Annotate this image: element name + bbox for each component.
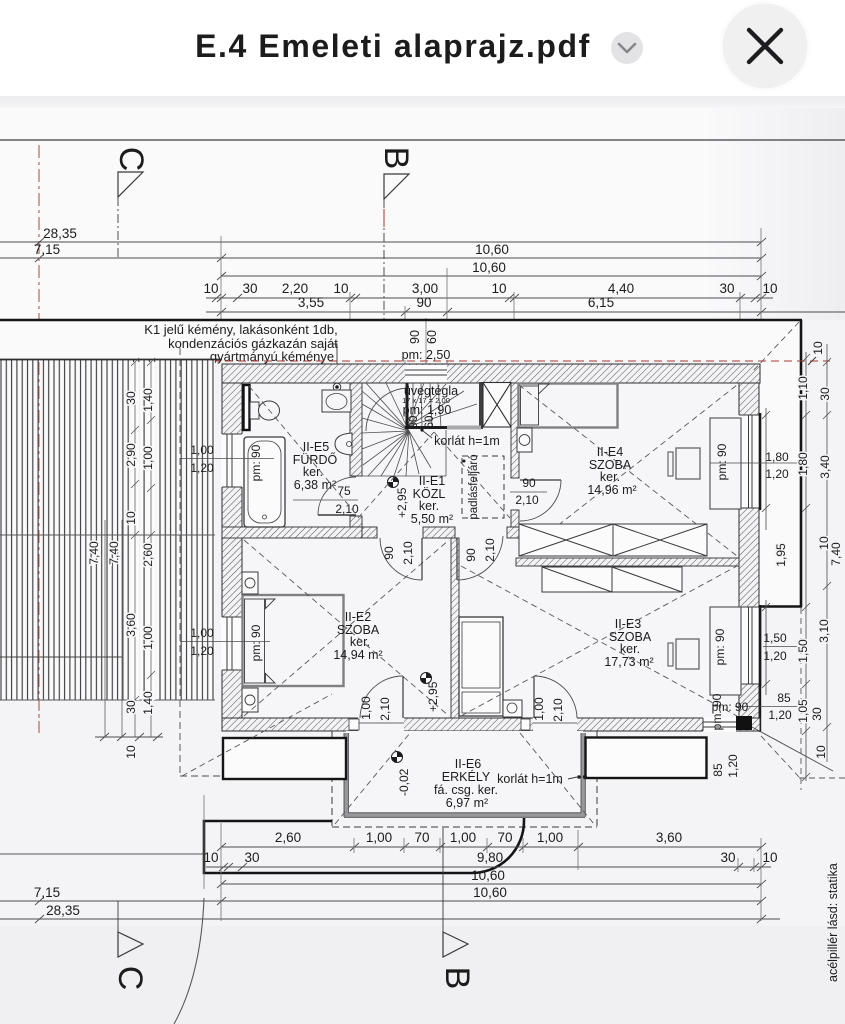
terrace bottom tick line bbox=[95, 733, 163, 741]
light strip inside envelope top bbox=[0, 321, 800, 360]
svg-text:10: 10 bbox=[333, 281, 348, 296]
right vertical dim line 1 bbox=[762, 408, 770, 695]
svg-text:-0,02: -0,02 bbox=[397, 768, 411, 796]
svg-text:pm: 90: pm: 90 bbox=[249, 624, 263, 661]
svg-text:acélpillér lásd: statika: acélpillér lásd: statika bbox=[826, 863, 840, 982]
rooms background bbox=[242, 383, 739, 718]
svg-text:pm: 90: pm: 90 bbox=[715, 443, 729, 480]
svg-text:10,60: 10,60 bbox=[473, 885, 507, 900]
svg-text:2,10: 2,10 bbox=[551, 698, 565, 722]
svg-text:3,60: 3,60 bbox=[656, 830, 682, 845]
stair treads fan bbox=[362, 383, 477, 476]
svg-text:1,50: 1,50 bbox=[763, 631, 787, 645]
svg-text:10: 10 bbox=[491, 281, 506, 296]
stair inner curve bbox=[366, 388, 409, 431]
right wall window (room E4) bbox=[738, 413, 760, 510]
svg-text:30: 30 bbox=[242, 281, 257, 296]
chevron button bbox=[611, 32, 643, 64]
E3 entry door bbox=[456, 538, 458, 580]
top dimension line 10,60 (2) bbox=[217, 272, 766, 280]
ground floor curved wall (bottom left) bbox=[174, 898, 204, 1024]
washbasin (top wall) bbox=[322, 390, 351, 412]
svg-text:1,40: 1,40 bbox=[141, 691, 155, 715]
svg-text:3,60: 3,60 bbox=[124, 613, 138, 637]
svg-text:90: 90 bbox=[408, 416, 420, 429]
svg-text:75: 75 bbox=[337, 484, 351, 498]
svg-text:10: 10 bbox=[811, 341, 825, 355]
right wall bbox=[739, 383, 759, 731]
svg-text:pm. 90: pm. 90 bbox=[710, 693, 724, 730]
svg-text:85: 85 bbox=[777, 691, 791, 705]
building envelope bold top bbox=[0, 319, 802, 322]
bottom wall window (E3) bbox=[703, 717, 736, 732]
WC bbox=[250, 402, 259, 419]
balcony dashed outline bbox=[332, 731, 597, 827]
svg-text:4,40: 4,40 bbox=[608, 281, 634, 296]
bottom chain dimension line bbox=[217, 843, 766, 851]
E4 south wall bbox=[516, 558, 739, 566]
svg-text:II-E1: II-E1 bbox=[419, 474, 445, 488]
E3 sideboard triangles bbox=[542, 567, 682, 592]
svg-text:B: B bbox=[438, 967, 476, 990]
svg-text:30: 30 bbox=[719, 281, 734, 296]
svg-text:1,00: 1,00 bbox=[190, 443, 214, 457]
axis C bottom: pole bbox=[117, 901, 119, 932]
envelope jog west bbox=[760, 605, 802, 607]
bathtub bbox=[244, 437, 285, 527]
svg-text:+2,95: +2,95 bbox=[426, 681, 440, 712]
E3 balcony door bbox=[533, 676, 535, 718]
E2 nightstands bbox=[242, 572, 258, 594]
header bar bbox=[0, 0, 845, 96]
svg-text:gyártmányú kéménye: gyártmányú kéménye bbox=[210, 349, 334, 364]
E2 balcony door bbox=[402, 676, 404, 718]
svg-text:10: 10 bbox=[762, 850, 777, 865]
E2 roof dashed diagonals bbox=[244, 540, 449, 716]
svg-text:korlát h=1m: korlát h=1m bbox=[434, 434, 500, 448]
svg-text:3,40: 3,40 bbox=[818, 455, 832, 479]
svg-text:1,00: 1,00 bbox=[532, 697, 546, 721]
svg-text:70: 70 bbox=[497, 830, 512, 845]
bath dashed roof line bbox=[249, 386, 356, 514]
bath south wall bbox=[222, 527, 362, 538]
svg-text:1,20: 1,20 bbox=[190, 644, 214, 658]
svg-text:28,35: 28,35 bbox=[43, 226, 77, 241]
svg-text:6,15: 6,15 bbox=[588, 295, 614, 310]
svg-text:1,00: 1,00 bbox=[450, 830, 476, 845]
svg-text:90: 90 bbox=[382, 546, 396, 560]
svg-text:7,40: 7,40 bbox=[87, 541, 101, 565]
svg-text:1,20: 1,20 bbox=[765, 467, 789, 481]
axis B bottom: flag bbox=[443, 932, 468, 957]
balcony bench west (bold rect) bbox=[223, 738, 346, 779]
svg-text:14,94 m²: 14,94 m² bbox=[333, 648, 382, 662]
hand basin (right wall of bath) bbox=[335, 433, 352, 455]
top dimension line 3,55 / 90 / 6,15 bbox=[206, 308, 845, 316]
room E2 bed bbox=[243, 595, 344, 686]
svg-text:C: C bbox=[111, 966, 149, 991]
svg-text:1,20: 1,20 bbox=[726, 754, 740, 778]
bath door bbox=[318, 514, 356, 516]
axis C top: pole bbox=[117, 197, 119, 259]
svg-text:70: 70 bbox=[414, 830, 429, 845]
axis B bottom: pole bbox=[442, 828, 444, 932]
lower dashed terrace lines bbox=[180, 775, 221, 777]
svg-text:fá. csg. ker.: fá. csg. ker. bbox=[434, 783, 498, 797]
bottom wall opening: balcony door E3 bbox=[533, 717, 577, 733]
svg-text:6,38 m²: 6,38 m² bbox=[294, 478, 336, 492]
E4 desk bbox=[710, 418, 741, 509]
left wall window (room E2) bbox=[221, 617, 243, 670]
svg-text:6,97 m²: 6,97 m² bbox=[446, 796, 488, 810]
svg-text:+2,95: +2,95 bbox=[395, 487, 409, 518]
bath radiator (dark bar) bbox=[244, 385, 250, 430]
roof corner dashed (top right) bbox=[752, 322, 799, 372]
terrace horizontal division line bbox=[0, 534, 215, 536]
K1 chimney marker dot bbox=[333, 383, 341, 391]
red axis A (dash-dot vertical) bbox=[38, 145, 40, 733]
svg-text:1,50: 1,50 bbox=[796, 639, 810, 663]
svg-text:7,15: 7,15 bbox=[34, 242, 60, 257]
bottom 28,35 line bbox=[0, 915, 780, 923]
svg-text:1,20: 1,20 bbox=[763, 649, 787, 663]
E4 west wall upper bbox=[511, 383, 519, 478]
svg-text:ker.: ker. bbox=[600, 470, 620, 484]
bottom 7,15 / 10,60 line bbox=[0, 897, 766, 905]
svg-text:II-E3: II-E3 bbox=[615, 617, 641, 631]
svg-text:C: C bbox=[112, 147, 150, 172]
bottom extension lines bbox=[204, 795, 761, 921]
right rotated dims bbox=[711, 341, 843, 778]
bottom 10,60 line 1 bbox=[217, 880, 766, 888]
svg-text:2,60: 2,60 bbox=[275, 830, 301, 845]
level marker -0,02 (balcony) bbox=[392, 752, 412, 797]
red dashed roof line bbox=[30, 360, 830, 362]
right vertical dim line 2 bbox=[802, 352, 810, 781]
svg-text:10: 10 bbox=[814, 745, 828, 759]
level marker +2,95 (stair) bbox=[388, 477, 410, 519]
bench corner dot bbox=[583, 775, 587, 779]
svg-text:ERKÉLY: ERKÉLY bbox=[442, 769, 491, 784]
svg-text:10: 10 bbox=[124, 511, 138, 525]
svg-text:10: 10 bbox=[203, 281, 218, 296]
korlát note bbox=[423, 431, 432, 438]
svg-text:1,80: 1,80 bbox=[796, 452, 810, 476]
top dimension line 7,15 / 10,60 bbox=[0, 254, 766, 262]
E4 entry door bbox=[520, 479, 561, 481]
balcony railing bbox=[344, 733, 585, 815]
extension lines above building bbox=[221, 228, 761, 364]
svg-text:1,05: 1,05 bbox=[796, 699, 810, 723]
svg-text:30: 30 bbox=[720, 850, 735, 865]
E2 entry door bbox=[421, 538, 423, 580]
corridor south wall segment 3 bbox=[507, 527, 519, 538]
steel pillar (acélpillér) bbox=[736, 716, 752, 730]
svg-text:pm: 1,90: pm: 1,90 bbox=[403, 403, 452, 417]
E4 chair bbox=[676, 448, 700, 479]
svg-text:60: 60 bbox=[425, 330, 439, 344]
balcony dashed diagonal bbox=[335, 733, 410, 824]
right wall window (room E3) bbox=[738, 605, 760, 686]
red axis overlay in hatch bbox=[38, 362, 40, 733]
close button bbox=[721, 2, 809, 90]
top frame line bbox=[0, 139, 845, 141]
svg-text:1,00: 1,00 bbox=[141, 626, 155, 650]
axis C top: flag bbox=[118, 172, 143, 197]
svg-text:1,10: 1,10 bbox=[796, 376, 810, 400]
svg-text:30: 30 bbox=[124, 700, 138, 714]
svg-text:II-E2: II-E2 bbox=[345, 610, 371, 624]
svg-text:10,60: 10,60 bbox=[472, 260, 506, 275]
E4 roof dashed diagonals bbox=[519, 385, 737, 556]
E4 west wall lower bbox=[511, 510, 519, 527]
svg-text:3,10: 3,10 bbox=[817, 619, 831, 643]
bottom wall opening: balcony door E2 bbox=[358, 717, 404, 733]
svg-text:2,90: 2,90 bbox=[124, 443, 138, 467]
svg-text:3,00: 3,00 bbox=[412, 281, 438, 296]
top dimension line 28,35 bbox=[0, 238, 766, 246]
level marker +2,95 (E3) bbox=[421, 673, 441, 713]
svg-text:90: 90 bbox=[464, 548, 478, 562]
stair railing bbox=[406, 383, 409, 429]
svg-text:90: 90 bbox=[416, 295, 431, 310]
svg-text:85: 85 bbox=[711, 763, 725, 777]
svg-text:90: 90 bbox=[408, 330, 422, 344]
svg-text:10: 10 bbox=[762, 281, 777, 296]
upper white band of sheet bbox=[0, 96, 845, 108]
terrace rotated dims bbox=[87, 388, 155, 759]
svg-text:14,96 m²: 14,96 m² bbox=[587, 483, 636, 497]
svg-text:7,40: 7,40 bbox=[829, 542, 843, 566]
svg-text:1,95: 1,95 bbox=[774, 543, 788, 567]
svg-text:1,00: 1,00 bbox=[141, 446, 155, 470]
E4 wardrobe row with X bbox=[519, 524, 707, 556]
left wall bbox=[222, 383, 242, 731]
svg-text:2,10: 2,10 bbox=[515, 493, 539, 507]
terrace hatched area bbox=[0, 360, 215, 700]
balcony bench east (bold rect) bbox=[586, 738, 707, 779]
left wall window (bath) bbox=[221, 434, 243, 487]
bottom 9,80 dimension line bbox=[206, 863, 771, 871]
svg-text:30: 30 bbox=[818, 387, 832, 401]
svg-text:1,00: 1,00 bbox=[537, 830, 563, 845]
roof corner dashed (bottom right) bbox=[761, 736, 799, 777]
svg-text:1,20: 1,20 bbox=[768, 708, 792, 722]
svg-text:II-E6: II-E6 bbox=[455, 757, 481, 771]
right vertical dim line 3 bbox=[823, 344, 831, 762]
glass block (üvegtégla) segment in top wall bbox=[405, 365, 447, 383]
svg-text:30: 30 bbox=[124, 391, 138, 405]
E4 entry door dims bbox=[510, 491, 547, 493]
svg-text:1,40: 1,40 bbox=[141, 388, 155, 412]
axis B top: red segment bbox=[383, 209, 385, 227]
svg-text:1,00: 1,00 bbox=[190, 626, 214, 640]
bath/stair wall bbox=[350, 383, 362, 476]
svg-text:90: 90 bbox=[522, 476, 536, 490]
svg-text:30: 30 bbox=[810, 707, 824, 721]
bath door dims bbox=[293, 499, 358, 501]
corridor south wall segment 1 bbox=[362, 527, 377, 538]
E3 desk bbox=[710, 607, 741, 695]
E3 chair bbox=[676, 639, 699, 669]
svg-text:pm: 90: pm: 90 bbox=[249, 444, 263, 481]
balcony floor bbox=[346, 731, 583, 817]
vertical dashed reference line bbox=[179, 348, 181, 776]
svg-text:II-E5: II-E5 bbox=[303, 440, 329, 454]
svg-text:1,80: 1,80 bbox=[765, 450, 789, 464]
svg-text:60: 60 bbox=[424, 416, 436, 429]
svg-text:2,60: 2,60 bbox=[141, 543, 155, 567]
svg-text:7,15: 7,15 bbox=[34, 885, 60, 900]
svg-text:5,50 m²: 5,50 m² bbox=[411, 512, 453, 526]
E4 nightstand bbox=[517, 428, 532, 452]
svg-text:28,35: 28,35 bbox=[46, 903, 80, 918]
svg-text:3,55: 3,55 bbox=[298, 295, 324, 310]
axis B top: flag bbox=[384, 174, 409, 199]
svg-text:B: B bbox=[377, 147, 415, 170]
room E4 bed bbox=[519, 384, 618, 428]
svg-text:2,10: 2,10 bbox=[378, 697, 392, 721]
door threshold boxes bbox=[349, 719, 359, 730]
svg-text:ker.: ker. bbox=[303, 465, 323, 479]
svg-text:9,80: 9,80 bbox=[477, 850, 503, 865]
bottom wall bbox=[222, 718, 760, 731]
svg-text:2,10: 2,10 bbox=[483, 538, 497, 562]
light strip inside envelope right bbox=[759, 321, 800, 607]
E2/E3 partition wall bbox=[451, 538, 459, 718]
E3 roof dashed diagonals bbox=[461, 566, 737, 716]
svg-text:1,00: 1,00 bbox=[359, 696, 373, 720]
axis C bottom: flag bbox=[118, 932, 143, 957]
building envelope bold right bbox=[800, 320, 803, 607]
envelope along east wall face bbox=[759, 607, 761, 733]
glass block parapet at stair bbox=[447, 426, 481, 430]
svg-text:10: 10 bbox=[203, 850, 218, 865]
svg-text:ker.: ker. bbox=[419, 499, 439, 513]
svg-text:E.4 Emeleti alaprajz.pdf: E.4 Emeleti alaprajz.pdf bbox=[195, 28, 591, 64]
corridor roof dashed lines bbox=[358, 432, 434, 518]
top chain dimension line bbox=[206, 294, 773, 302]
axis B top: pole bbox=[383, 199, 385, 320]
svg-text:10: 10 bbox=[124, 745, 138, 759]
terrace vertical dim lines bbox=[131, 362, 140, 700]
top wall bbox=[222, 364, 760, 383]
room E3 wardrobe bbox=[459, 617, 503, 716]
svg-text:padlásfeljáró: padlásfeljáró bbox=[468, 454, 480, 519]
svg-text:ker.: ker. bbox=[350, 635, 370, 649]
attic access dashed rect bbox=[462, 456, 504, 518]
corridor south wall segment 2 bbox=[423, 527, 455, 538]
svg-text:2,20: 2,20 bbox=[282, 281, 308, 296]
svg-text:pm: 90: pm: 90 bbox=[713, 628, 727, 665]
chimney block with X bbox=[483, 383, 511, 428]
svg-text:K1 jelű kémény, lakásonként 1d: K1 jelű kémény, lakásonként 1db, bbox=[144, 322, 337, 337]
ground floor bold outline bbox=[204, 818, 524, 873]
svg-text:10,60: 10,60 bbox=[471, 868, 505, 883]
svg-text:1,20: 1,20 bbox=[190, 461, 214, 475]
K1 leader bbox=[330, 344, 337, 383]
svg-text:7,40: 7,40 bbox=[107, 541, 121, 565]
svg-text:2,10: 2,10 bbox=[401, 541, 415, 565]
E3 small unit bbox=[503, 700, 522, 717]
svg-text:10,60: 10,60 bbox=[475, 242, 509, 257]
svg-text:1,00: 1,00 bbox=[366, 830, 392, 845]
svg-text:30: 30 bbox=[244, 850, 259, 865]
steel pillar solid diagonal bbox=[752, 727, 833, 771]
chimney dark bar bbox=[479, 382, 483, 429]
